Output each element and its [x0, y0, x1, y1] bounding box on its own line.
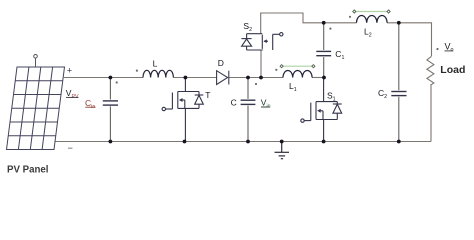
transistor S1 (MOSFET with body diode) — [301, 78, 342, 142]
flux line L1 (green) — [280, 65, 315, 68]
ground — [275, 142, 290, 159]
svg-text:T: T — [205, 90, 210, 100]
flux line L2 (green) — [353, 10, 390, 13]
junction at C1 top rail node — [322, 21, 326, 25]
marker dot near C1 — [329, 28, 331, 30]
transistor S2 (MOSFET with body diode, flipped) — [241, 33, 283, 50]
inductor L — [143, 70, 173, 77]
marker dot near Vo — [436, 48, 438, 50]
wire top-right rail and load branch — [387, 23, 432, 142]
junction at T source rail — [183, 140, 187, 144]
inductor L2 — [357, 15, 388, 22]
svg-text:D: D — [218, 58, 224, 68]
capacitor C2 — [398, 23, 400, 142]
junction at C2 bottom rail — [397, 140, 401, 144]
junction at L2-C2-Load node — [397, 21, 401, 25]
wire S2 branch up and top-left rail — [261, 13, 357, 78]
capacitor C — [247, 78, 249, 142]
PV panel top terminal — [34, 55, 38, 68]
junction at S2 source node — [259, 76, 263, 80]
marker dot near L1 — [275, 69, 277, 71]
junction at ground tap — [280, 140, 284, 144]
transistor T (MOSFET with body diode) — [162, 78, 203, 142]
marker dot near L — [136, 70, 138, 72]
svg-text:PV Panel: PV Panel — [7, 165, 48, 176]
junction at T drain node — [184, 76, 188, 80]
svg-text:C: C — [231, 98, 237, 108]
svg-text:+: + — [67, 65, 72, 75]
capacitor Cin — [109, 78, 111, 142]
diode D — [217, 71, 229, 85]
wire top rail from PV+ — [63, 77, 325, 79]
svg-text:Load: Load — [440, 64, 465, 76]
junction at S1 source rail — [322, 140, 326, 144]
PV panel — [7, 67, 65, 150]
marker dot near C — [255, 83, 257, 85]
junction at C top node (Vin node) — [246, 76, 250, 80]
junction at Cin bottom rail — [109, 140, 113, 144]
marker dot near L2 — [349, 16, 351, 18]
capacitor C1 — [323, 23, 325, 78]
junction at Cin top node — [109, 76, 113, 80]
junction at C bottom rail — [246, 140, 250, 144]
junction at L1-C1-S1 node — [322, 76, 326, 80]
svg-text:L: L — [153, 58, 158, 68]
resistor Load — [427, 56, 434, 85]
marker dot near Cin — [116, 81, 118, 83]
wire bottom rail from PV- — [56, 141, 432, 143]
inductor L1 — [283, 70, 312, 77]
svg-text:−: − — [68, 143, 73, 153]
